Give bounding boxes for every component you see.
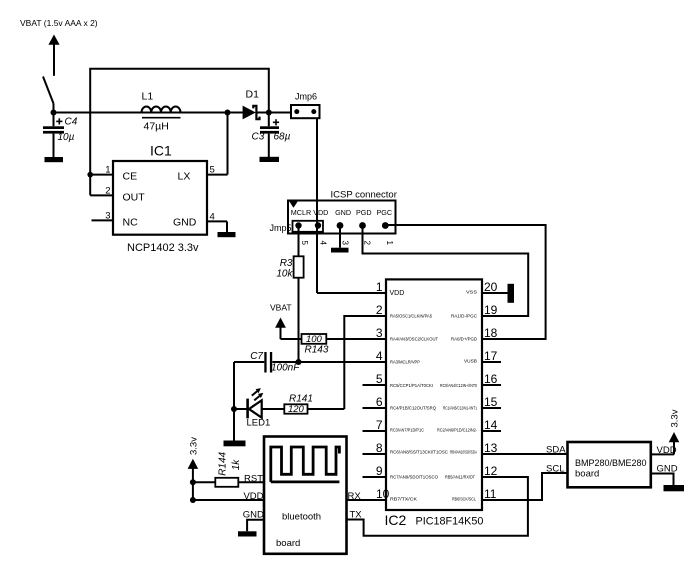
node LED junction [231,406,237,412]
ICSP pin PGC [382,222,389,229]
LED LED1 [234,388,284,418]
IC2 pin 16 stub [482,384,501,386]
microcontroller IC2 box [386,279,482,510]
op-amp IC1 box [113,161,207,235]
wire R143 to IC2 pin 3 [326,338,386,340]
svg-text:R144: R144 [217,451,228,475]
wire bluetooth RX to IC2 pin 10 [347,499,387,501]
bluetooth board box [264,437,347,554]
svg-text:bluetooth: bluetooth [282,512,321,523]
IC1 pin 1 stub [90,174,113,176]
power arrow VBAT [48,35,59,76]
svg-text:C3: C3 [252,132,265,143]
svg-text:GND: GND [173,217,197,229]
svg-text:15: 15 [484,395,498,409]
IC2 pin 5 stub [363,384,387,386]
svg-text:19: 19 [484,303,498,317]
node 3.3v VDD junction [190,497,196,503]
wire ICSP MCLR down to R3 [298,226,300,257]
wire MCLR net to IC2 pin 4 [272,361,386,363]
diode D1 schottky [243,106,260,120]
IC2 pin 17 stub [482,361,501,363]
svg-text:20: 20 [484,280,498,294]
svg-text:R143: R143 [305,345,329,356]
resistor R143 [302,334,327,344]
svg-text:VDD: VDD [243,491,263,502]
svg-text:RST: RST [244,473,263,484]
ground ICSP [331,248,349,253]
IC2 pin 7 stub [363,430,387,432]
svg-text:GND: GND [335,208,351,217]
IC1 pin 2 stub [90,194,113,196]
IC2 pin 8 stub [363,453,387,455]
antenna meander bluetooth [271,447,340,482]
resistor R141 [284,404,307,413]
svg-text:2: 2 [105,185,110,196]
wire R3 down to MCLR net [298,278,300,362]
IC1 pin 4 stub [207,220,227,222]
node R3 MCLR junction [296,359,302,365]
svg-text:16: 16 [484,372,498,386]
wire R144 to bluetooth RST [238,481,264,483]
node IC1 pin1 junction [87,172,93,178]
jumper Jmp5 box [293,221,324,232]
svg-text:11: 11 [484,487,497,501]
svg-text:Jmp5: Jmp5 [270,223,292,233]
capacitor C7 [234,352,272,373]
ground IC1 [218,232,236,237]
svg-text:100: 100 [306,334,323,345]
power arrow VBAT mid [275,318,286,340]
svg-text:IC1: IC1 [150,143,172,159]
svg-text:C7: C7 [250,351,263,362]
svg-text:1k: 1k [231,459,242,471]
power arrow 3.3v left [188,459,199,483]
ICSP pin MCLR [295,222,301,228]
IC1 pin 3 stub NC [92,219,114,221]
wire bluetooth GND to ground [247,520,264,532]
svg-text:RC3/AN7/P1D/P1C: RC3/AN7/P1D/P1C [390,428,425,433]
svg-text:2: 2 [363,241,372,246]
IC1 pin 5 wire to LX node [207,113,228,175]
svg-text:RC1/AN5/C12IN1-/INT1: RC1/AN5/C12IN1-/INT1 [443,406,477,411]
svg-text:1: 1 [385,241,394,246]
ICSP pin PGD [359,222,366,229]
jumper Jmp6 [291,105,320,118]
svg-text:RB7/TX/CK: RB7/TX/CK [390,497,417,502]
wire 3.3v down to VDD row [192,482,194,500]
wire IC2 pin 11 SCL to BMP board [482,473,568,500]
svg-text:BMP280/BME280: BMP280/BME280 [575,458,647,469]
wire battery row to diode [54,112,244,114]
svg-text:LX: LX [178,170,191,182]
svg-text:SCL: SCL [546,463,564,474]
svg-text:MCLR: MCLR [291,208,311,217]
inductor L1 [142,106,181,117]
svg-text:RC5/CCP1/P1A/T0CKI: RC5/CCP1/P1A/T0CKI [390,383,433,388]
resistor R3 [294,256,304,277]
capacitor C4 [43,113,64,158]
wire VDD to bluetooth board [193,499,264,501]
wire diode to Jmp6 [256,112,291,114]
svg-text:RA4/AN3/OSC2/CLKOUT: RA4/AN3/OSC2/CLKOUT [390,337,438,342]
ground C3 [260,157,280,162]
svg-text:12: 12 [484,464,498,478]
svg-text:6: 6 [376,395,383,409]
ground BMP [664,485,685,491]
wire Jmp6 down to ICSP VDD and IC2 pin1 [316,118,318,293]
svg-text:RA1/D-/PGC: RA1/D-/PGC [451,314,478,319]
capacitor C3 [260,113,279,158]
svg-text:7: 7 [376,418,383,432]
svg-text:17: 17 [484,349,498,363]
svg-text:VBAT: VBAT [270,303,292,313]
svg-text:VUSB: VUSB [464,359,477,364]
svg-text:18: 18 [484,326,498,340]
svg-text:3: 3 [376,326,383,340]
svg-text:R141: R141 [289,393,313,404]
svg-text:5: 5 [376,372,383,386]
node diode output junction [266,110,272,116]
svg-text:4: 4 [319,241,328,246]
svg-text:120: 120 [288,404,305,415]
IC2 pin 20 stub [482,292,508,294]
svg-text:board: board [575,469,599,480]
svg-text:NCP1402 3.3v: NCP1402 3.3v [127,242,199,254]
ground C4 [45,157,64,162]
IC2 pin 15 stub [482,407,501,409]
svg-text:3: 3 [341,241,350,246]
svg-text:VSS: VSS [466,290,477,295]
svg-text:RC0/AN4/C12IN+/INT0: RC0/AN4/C12IN+/INT0 [440,383,477,388]
wire VDD to IC2 pin 1 [317,292,386,294]
svg-text:4: 4 [210,211,215,222]
ground bluetooth [238,531,257,536]
node battery junction [51,110,57,116]
svg-text:RA3/MCLR/VPP: RA3/MCLR/VPP [390,360,420,365]
wire BMP VDD to 3.3v [651,442,674,455]
svg-text:47µH: 47µH [144,121,169,133]
wire ICSP PGD to IC2 pin 19 [363,226,529,317]
svg-text:RA5/OSC1/CLKIN/PA5: RA5/OSC1/CLKIN/PA5 [390,314,432,319]
svg-text:RB5/AN11/RX/DT: RB5/AN11/RX/DT [445,475,475,480]
svg-text:CE: CE [123,170,138,182]
wire C7 down to LED node [233,362,235,409]
svg-text:3.3v: 3.3v [188,437,199,455]
svg-text:13: 13 [484,441,498,455]
svg-text:ICSP connector: ICSP connector [331,190,397,201]
svg-text:RC2/AN6/P1D/C12IN2-: RC2/AN6/P1D/C12IN2- [437,428,477,433]
pin 20 header bar [508,284,515,303]
svg-text:PIC18F14K50: PIC18F14K50 [416,516,484,528]
wire R141 to pin2 net [308,408,345,410]
svg-text:VDD: VDD [313,208,328,217]
svg-text:14: 14 [484,418,498,432]
power arrow 3.3v right [669,432,680,442]
wire LED node to ground [233,409,235,441]
svg-text:8: 8 [376,441,383,455]
svg-text:C4: C4 [65,117,78,128]
svg-text:10µ: 10µ [58,132,75,143]
svg-text:1: 1 [105,165,110,176]
svg-text:RC6/AN8/SS/T13CKI/T1OSC: RC6/AN8/SS/T13CKI/T1OSC [390,450,449,455]
svg-text:RB4/AN10/SDI/SDA: RB4/AN10/SDI/SDA [450,450,477,455]
svg-text:LED1: LED1 [247,418,271,429]
svg-text:IC2: IC2 [385,512,407,528]
svg-text:PGD: PGD [356,208,372,217]
wire IC2 pin 2 to R141 [344,316,386,409]
switch S1 [43,77,54,113]
svg-text:R3: R3 [280,258,293,269]
connector ICSP box [288,201,396,234]
IC2 pin 14 stub [482,430,501,432]
svg-text:10: 10 [376,487,390,501]
BMP280 board box [568,442,651,487]
IC2 pin 6 stub [363,407,387,409]
wire IC1 pin4 to ground [226,221,228,232]
wire VBAT to R143 [281,338,302,340]
wire feedback loop top [90,69,269,196]
svg-text:board: board [276,538,300,549]
svg-text:4: 4 [376,349,383,363]
svg-text:PGC: PGC [377,208,393,217]
node LX junction [225,110,231,116]
svg-text:1: 1 [376,280,383,294]
svg-text:10k: 10k [276,268,293,279]
svg-text:VDD: VDD [390,290,405,297]
wire bluetooth TX to IC2 pin 12 [347,477,528,536]
svg-text:RC4/P1B/C12OUT/SRQ: RC4/P1B/C12OUT/SRQ [390,406,436,411]
svg-text:NC: NC [123,217,139,229]
svg-text:OUT: OUT [123,192,146,204]
svg-text:VBAT (1.5v AAA x 2): VBAT (1.5v AAA x 2) [20,18,98,28]
svg-text:SDA: SDA [546,445,566,456]
ground LED [224,441,246,447]
svg-text:100nF: 100nF [271,363,300,374]
svg-text:3: 3 [105,210,110,221]
svg-text:D1: D1 [246,89,260,101]
svg-text:Jmp6: Jmp6 [295,92,317,102]
ICSP pin VDD [315,222,321,228]
wire ICSP PGC to IC2 pin 18 [385,225,545,339]
svg-text:3.3v: 3.3v [670,409,681,427]
svg-text:68µ: 68µ [274,132,291,143]
wire BMP GND to ground [651,474,674,486]
IC2 pin 9 stub [363,476,387,478]
node 3.3v RST junction [190,479,196,485]
ICSP pin GND [337,222,344,229]
wire ICSP GND to ground [339,226,341,248]
svg-text:9: 9 [376,464,383,478]
svg-text:5: 5 [210,165,215,176]
ICSP pin1 marker triangle [289,202,297,208]
wire 3.3v to R144 [193,481,215,483]
svg-text:RA0/D+/PGD: RA0/D+/PGD [451,337,478,342]
svg-text:RC7/AN9/SDO/T1OSCO: RC7/AN9/SDO/T1OSCO [390,475,438,480]
resistor R144 [215,478,238,487]
wire IC2 pin 13 SDA to BMP board [482,453,568,455]
svg-text:L1: L1 [142,91,154,103]
svg-text:2: 2 [376,303,383,317]
svg-text:RB6/SCK/SCL: RB6/SCK/SCL [452,497,476,502]
svg-text:5: 5 [300,241,309,246]
